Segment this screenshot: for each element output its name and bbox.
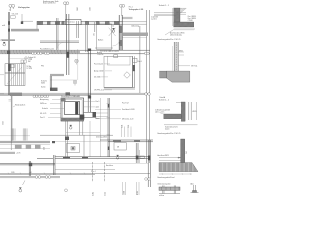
vertical wall x88-91 [88,50,90,112]
band y140-142 [100,140,153,142]
svg-text:Ø8/15: Ø8/15 [179,50,183,52]
svg-text:Pos. 4: Pos. 4 [91,171,96,173]
svg-text:1.010: 1.010 [124,191,126,195]
wire extension continuation [96,113,108,117]
light divider lines mid plan [77,49,79,80]
stair block left [5,64,25,86]
D3 right double line [189,102,191,120]
svg-text:OK FFB +0.00: OK FFB +0.00 [94,90,104,92]
wall x119 fill and hatch [119,25,122,50]
svg-text:Pos.11 d=20: Pos.11 d=20 [94,64,103,66]
D1 horizontal checker band [174,22,194,27]
section marker 2 bottom-left [19,188,22,192]
section marker 2 mid [116,155,119,159]
door arc [113,39,121,47]
svg-text:Pos.3: Pos.3 [138,61,142,63]
mid-right room [104,56,133,87]
wall y141-143 [0,141,50,143]
small box near room right wall [133,58,137,62]
vertical leader with arrow [22,14,33,21]
svg-text:+2.76: +2.76 [16,153,20,155]
D3 vertical checker wall [181,102,185,121]
svg-text:2.60: 2.60 [186,151,188,154]
svg-text:d=25: d=25 [96,107,100,109]
D1 left lines [154,8,186,26]
dark segs on bottom wall [63,157,70,159]
horizontal line y135 [40,134,113,136]
shaft wall extension right [84,112,97,117]
svg-text:4.385: 4.385 [93,192,95,196]
grid bubble pair C [119,4,124,16]
bubbles on band [32,52,150,54]
top long wall [37,21,147,24]
svg-text:30/30 cm: 30/30 cm [40,103,47,105]
svg-text:Pos.7 UZ: Pos.7 UZ [122,103,129,105]
svg-text:Pos.1 Ø8/15: Pos.1 Ø8/15 [188,16,197,18]
wire dim line y37.6 [122,37,147,39]
svg-text:2.135: 2.135 [105,192,107,196]
dark seg at left of wall y74 [50,88,58,91]
svg-text:UZ 24/40: UZ 24/40 [94,77,101,79]
legend 2 drawing [191,185,199,192]
room bottom wall [104,87,135,89]
circle marker + text [25,57,27,59]
shaft middle wall line [63,100,83,120]
legend1 top ticks [163,185,176,187]
svg-text:3.56: 3.56 [44,147,46,150]
left edge stubs [0,75,4,94]
bottom dim band y173-178 [0,173,150,177]
small rect near wall [140,156,144,159]
wire y163.7 [55,163,148,165]
D2 left dim line [171,46,173,71]
svg-text:Vorlegeplan: Vorlegeplan [18,6,30,9]
central shaft [61,98,84,121]
svg-text:2.385: 2.385 [11,172,15,174]
header box on top wall [66,19,82,24]
svg-text:Vorlegeplan ü. EG: Vorlegeplan ü. EG [129,9,144,11]
wall junction blobs on left wall [8,21,10,25]
wire wall-start connector x37 [36,25,38,30]
hatch on wall x66 [66,52,69,58]
svg-text:Pos.5: Pos.5 [96,101,100,103]
svg-text:OK +2.63: OK +2.63 [12,14,19,16]
svg-text:ü=2.0cm: ü=2.0cm [151,18,158,20]
grid bubble pair A top-left [9,4,15,11]
D2 grey footing [167,71,190,82]
hatched wall segments y144.6-148.7 [0,145,50,149]
svg-text:25 1.76 24 3.385 24 1.64 25: 25 1.76 24 3.385 24 1.64 25 [100,51,119,53]
small rect on band [114,55,118,58]
grey blob on band [10,93,22,96]
svg-text:OK Fund.: OK Fund. [191,66,198,68]
svg-text:30/45: 30/45 [41,83,45,85]
bottom dim texts rotated [93,191,140,196]
svg-text:0.365: 0.365 [137,191,139,195]
svg-text:Pos.2 Ø8/15: Pos.2 Ø8/15 [188,18,197,20]
walls right-bottom [136,140,150,187]
verticals below shaft [66,121,105,182]
svg-text:2.885: 2.885 [77,7,79,11]
svg-text:Kamin: Kamin [41,87,46,89]
wire verticals upper-middle [57,10,150,163]
svg-text:Pos. 1: Pos. 1 [129,7,133,9]
tree symbol 1 [75,59,79,64]
left vertical line lower [10,96,13,150]
grey stub left [2,39,15,41]
bubbles on band 93 [33,93,150,98]
Detail 4 checker wall [181,139,185,166]
small rect top-left [11,16,16,18]
svg-text:UK -0.25: UK -0.25 [40,113,46,115]
svg-text:1.24: 1.24 [128,125,130,128]
D1 diag hatch triangle [180,8,186,13]
pilaster pair 1 [11,128,15,140]
rotated square symbol [124,72,131,79]
section marker 2 left [3,42,6,46]
svg-text:Ø8/15: Ø8/15 [193,111,197,113]
grid bubble pair B [64,2,69,21]
svg-text:UK Decke -0.20: UK Decke -0.20 [122,119,133,121]
wire y58.8 [9,58,33,60]
svg-text:08: 08 [117,147,119,149]
pilaster pair 2 [23,128,27,140]
D3 lower line and text [164,124,198,126]
dark wall segs near y141 [52,141,55,143]
svg-text:2.38: 2.38 [122,125,124,128]
left vertical wall [8,12,9,95]
svg-text:1.01: 1.01 [29,172,32,174]
wall x88 junction caps [88,49,91,52]
grey band G1 [11,29,39,32]
svg-text:C25/30: C25/30 [188,20,193,22]
svg-text:a.A.: a.A. [2,24,6,27]
grey band top-right [123,33,148,37]
mid-left wall vertical [50,76,51,90]
tree symbol 2 [73,80,77,85]
D3 horizontal checker band [164,114,182,119]
svg-text:Pos.2 Ø10/15 l=1.20: Pos.2 Ø10/15 l=1.20 [40,48,54,50]
svg-text:F90: F90 [41,66,44,68]
D1 below band line [174,28,195,30]
svg-text:Pos. 8: Pos. 8 [40,117,45,119]
shaft leader texts left [40,98,49,119]
band tick hatching [1,50,76,54]
small arrow bottom-left [23,181,26,186]
svg-text:1.10/1.40: 1.10/1.40 [97,54,103,56]
fixtures small rects [21,60,23,63]
wire y135.8 left [0,135,30,137]
svg-text:1: 1 [9,10,10,12]
legend 1 drawing [159,187,180,194]
svg-text:2.4: 2.4 [112,25,114,27]
line y169.5 [55,169,115,171]
Z section marker [112,28,115,32]
D4 left arrows [159,157,181,160]
bottom wall band y157-165 [0,155,150,176]
grey band G2 bottom-left [0,152,15,154]
bubbles bottom [35,176,150,192]
mid band y50-54 [0,50,150,54]
light verticals x100 x108 [99,98,101,157]
svg-text:a=50cm: a=50cm [159,195,165,197]
svg-text:Wand d=24cm: Wand d=24cm [15,105,26,107]
svg-text:Schnitt 1 - 1: Schnitt 1 - 1 [159,4,169,7]
svg-text:1.385: 1.385 [90,7,92,11]
door arc mid [58,43,64,49]
hatch blob left of band [7,51,10,54]
wall segment y47.5 [95,47,113,49]
room right wall [133,56,135,87]
D4 dim line below footing [159,173,192,175]
svg-text:1.01: 1.01 [94,33,96,36]
D1 vertical checker wall [174,8,180,26]
stair direction line [7,67,22,84]
svg-text:Schnitt 2 - 2: Schnitt 2 - 2 [159,99,169,102]
room 08 box [114,143,126,151]
band y93-95.5 [0,93,150,95]
room box with door X [97,24,112,50]
junction line below shaft [66,132,100,134]
D4 footing band [159,163,198,172]
rotated dim texts top [77,7,91,11]
D2 right arrows/text [178,52,190,66]
small marks upper [9,100,12,102]
svg-text:Balkon: Balkon [98,40,103,42]
svg-text:Durchbruch 20/20: Durchbruch 20/20 [122,109,135,111]
svg-text:d=5cm: d=5cm [165,129,170,131]
svg-text:2.635: 2.635 [2,121,4,125]
box below shaft [67,144,80,153]
dim band ticks [8,173,85,175]
dim text columns near x121-132 [44,125,131,150]
svg-text:17.2/28: 17.2/28 [27,68,32,70]
leader text rows mid [94,64,104,92]
2-marker below shaft [69,125,72,129]
interior wall y41-42.5 [40,41,79,43]
ledge lines top right [122,17,132,19]
mid-left wall horizontal [50,74,64,76]
